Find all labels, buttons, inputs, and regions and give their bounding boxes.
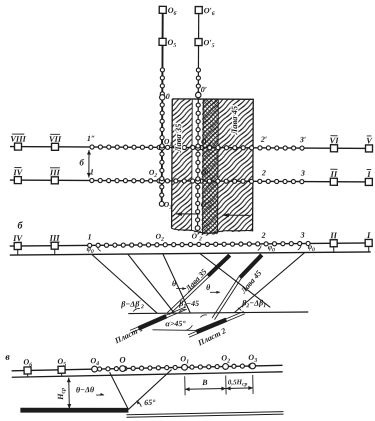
svg-text:I: I [366,169,371,179]
svg-text:0: 0 [166,92,170,101]
svg-text:в: в [5,352,10,363]
svg-text:VIII: VIII [10,134,26,144]
svg-text:II: II [330,169,338,179]
svg-text:В: В [201,378,208,387]
svg-text:1: 1 [90,167,94,176]
svg-text:65°: 65° [144,398,156,407]
svg-text:3: 3 [300,169,305,178]
svg-text:III: III [49,233,61,243]
svg-text:2: 2 [261,231,266,240]
svg-text:б: б [79,157,84,167]
svg-text:0′: 0′ [201,85,207,94]
svg-text:α>45°: α>45° [165,319,186,328]
svg-text:3′: 3′ [299,135,306,144]
svg-text:3: 3 [300,230,305,239]
svg-text:1: 1 [88,232,92,241]
svg-text:III: III [49,167,61,177]
svg-text:II: II [329,230,337,240]
svg-text:2: 2 [261,168,266,177]
svg-text:IV: IV [12,167,23,177]
svg-text:IV: IV [12,233,23,243]
svg-text:VI: VI [330,135,340,145]
svg-text:VII: VII [49,134,62,144]
svg-text:I: I [366,230,371,240]
svg-text:1″: 1″ [87,134,95,143]
svg-text:2′: 2′ [260,135,267,144]
svg-text:O: O [119,354,125,364]
svg-text:Лава 45: Лава 45 [229,105,239,135]
svg-text:Лава 35: Лава 35 [173,123,183,153]
svg-text:θ−Δθ: θ−Δθ [76,385,95,394]
